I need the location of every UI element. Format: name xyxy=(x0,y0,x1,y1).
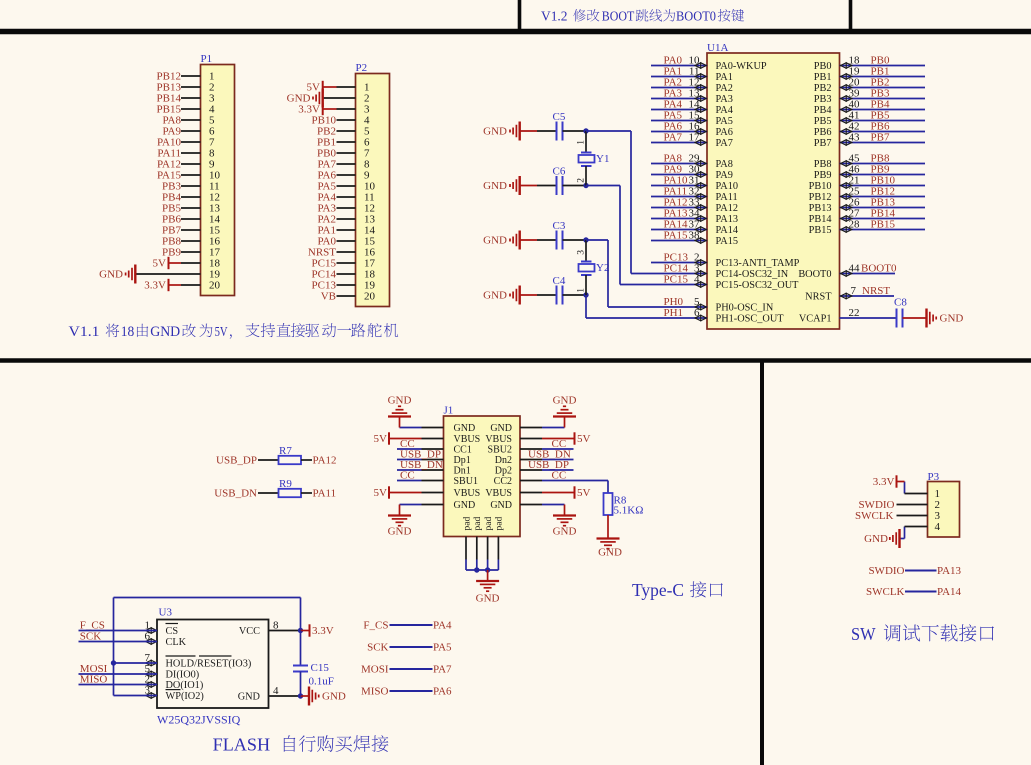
P2 pin 4 wire xyxy=(337,119,356,121)
wire F_CS xyxy=(79,630,158,632)
crystal Y2 pin 1 wire xyxy=(585,275,587,295)
svg-text:PA2: PA2 xyxy=(716,83,733,94)
svg-text:SWCLK: SWCLK xyxy=(855,510,894,522)
U3 CS overline xyxy=(166,623,179,625)
U1A pin 5 (PH0-OSC_IN) wire xyxy=(608,306,707,308)
title SW debug download port xyxy=(851,624,994,644)
ground symbol up (J1 top-left) xyxy=(388,415,411,417)
svg-text:VB: VB xyxy=(321,291,336,303)
wire C4 to node xyxy=(563,294,587,296)
wire GND to C6 xyxy=(521,185,538,187)
U3 pin 6 arrow xyxy=(146,639,157,644)
U1A pin 18 arrow xyxy=(841,63,852,68)
J1 left pin Dp1 stub xyxy=(422,459,444,461)
svg-text:1: 1 xyxy=(577,140,587,145)
U1A pin 33 (PA12) wire xyxy=(651,207,707,209)
svg-text:GND: GND xyxy=(476,593,500,605)
U1A pin 37 arrow xyxy=(695,227,706,232)
J1 left pin CC1 stub xyxy=(422,448,444,450)
J1 pad pin 2 xyxy=(476,537,478,560)
wire F_CS to PA4 xyxy=(390,624,433,626)
capacitor C6 xyxy=(556,176,558,195)
svg-text:PH1: PH1 xyxy=(664,307,684,319)
U3 pin 5 arrow xyxy=(146,671,157,676)
svg-text:PB2: PB2 xyxy=(814,83,832,94)
svg-text:28: 28 xyxy=(849,219,861,231)
U1A pin 25 (PB12) wire xyxy=(840,196,926,198)
P2 pin 2 wire xyxy=(324,97,356,99)
crystal Y1 pin 2 wire xyxy=(585,166,587,186)
power port 5V (J1 VBUS right bottom) xyxy=(542,492,575,494)
capacitor C5 xyxy=(556,122,558,141)
U1A pin 27 arrow xyxy=(841,216,852,221)
U1A pin 27 (PB14) wire xyxy=(840,218,926,220)
J1 left pin GND stub xyxy=(422,504,444,506)
wire SWDIO to PA13 xyxy=(905,570,937,572)
ground symbol (C8) xyxy=(925,309,927,328)
svg-text:GND: GND xyxy=(150,324,180,340)
U1A pin 26 arrow xyxy=(841,205,852,210)
U1A pin 40 arrow xyxy=(841,107,852,112)
U1A pin 29 (PA8) wire xyxy=(651,163,707,165)
ground symbol (P1.19) xyxy=(134,265,136,284)
junction (VCC node) xyxy=(298,628,303,633)
svg-text:BOOT: BOOT xyxy=(602,9,635,24)
wire VCC to C15 xyxy=(300,631,302,666)
svg-text:GND: GND xyxy=(483,126,507,138)
U3 pin 1 arrow xyxy=(146,628,157,633)
svg-text:GND: GND xyxy=(490,423,512,434)
U1A pin 31 (PA10) wire xyxy=(651,185,707,187)
svg-text:C4: C4 xyxy=(553,275,566,287)
J1 right pin GND stub xyxy=(520,427,542,429)
P1 pin 14 wire xyxy=(181,218,201,220)
U1A pin 30 (PA9) wire xyxy=(651,174,707,176)
U1A pin 12 arrow xyxy=(695,85,706,90)
svg-text:DI(IO0): DI(IO0) xyxy=(166,670,200,681)
svg-text:GND: GND xyxy=(483,235,507,247)
wire USB_DN to R9 xyxy=(258,492,279,494)
capacitor C4 xyxy=(556,286,558,305)
wire MOSI xyxy=(79,673,158,675)
power port 3.3V wire stub (P2.3) xyxy=(323,108,337,110)
svg-text:VBUS: VBUS xyxy=(485,488,512,499)
U1A pin 17 (PA7) wire xyxy=(651,142,707,144)
svg-text:pad: pad xyxy=(473,517,483,531)
svg-text:5V: 5V xyxy=(374,433,388,445)
svg-text:5V: 5V xyxy=(215,325,228,340)
svg-text:PB12: PB12 xyxy=(809,192,832,203)
wire MISO to PA6 xyxy=(390,690,433,692)
U1A pin 17 arrow xyxy=(695,140,706,145)
svg-text:43: 43 xyxy=(849,132,861,144)
crystal Y1 pin 1 wire xyxy=(585,131,587,153)
U1A pin 33 arrow xyxy=(695,205,706,210)
U1A pin 45 (PB8) wire xyxy=(840,163,926,165)
U1A pin 45 arrow xyxy=(841,161,852,166)
U3 pin 4 wire xyxy=(269,695,301,697)
svg-text:GND: GND xyxy=(388,395,412,407)
crystal Y2 pin 3 wire xyxy=(585,240,587,262)
power port 5V bar (P2.1) xyxy=(322,81,324,93)
U1A pin 2 (PC13-ANTI_TAMP) wire xyxy=(651,262,707,264)
power port 5V wire stub (P2.1) xyxy=(323,86,337,88)
P2 pin 8 wire xyxy=(337,163,356,165)
wire MISO xyxy=(79,684,158,686)
J1 left pin VBUS stub xyxy=(422,438,444,440)
J1 left pin GND stub xyxy=(422,427,444,429)
U1A pin 46 arrow xyxy=(841,172,852,177)
sheet horizontal separator (middle) xyxy=(0,358,1031,362)
crystal Y2 xyxy=(581,261,592,263)
power port 3.3V wire stub (P1.20) xyxy=(169,284,182,286)
U1A pin 43 arrow xyxy=(841,140,852,145)
capacitor C8 xyxy=(896,309,898,328)
svg-text:MISO: MISO xyxy=(361,686,389,698)
P2 pin 20 wire xyxy=(337,295,356,297)
title note V1.2 (BOOT jumper revision) xyxy=(541,9,744,24)
svg-text:PA3: PA3 xyxy=(716,94,733,105)
U1A pin 4 arrow xyxy=(695,282,706,287)
svg-text:J1: J1 xyxy=(444,405,454,417)
wire C3 node to PH0 xyxy=(586,239,608,241)
P2 pin 3 wire xyxy=(337,108,356,110)
svg-text:SBU2: SBU2 xyxy=(488,444,512,455)
U1A pin 16 (PA6) wire xyxy=(651,131,707,133)
J1 pad pin 1 xyxy=(465,537,467,560)
sheet partition vertical line (title block left) xyxy=(518,0,522,34)
P1 pin 18 wire xyxy=(181,262,201,264)
power port 5V (J1 VBUS right top) xyxy=(542,438,575,440)
svg-text:MOSI: MOSI xyxy=(361,664,389,676)
U1A pin 25 arrow xyxy=(841,194,852,199)
svg-text:6: 6 xyxy=(694,307,700,319)
wire SWCLK to PA14 xyxy=(905,591,937,593)
J1 right pin Dp2 stub xyxy=(520,469,542,471)
U1A pin 10 (PA0-WKUP) wire xyxy=(651,65,707,67)
U1A pin 34 (PA13) wire xyxy=(651,218,707,220)
svg-text:SBU1: SBU1 xyxy=(454,476,478,487)
J1 right pin Dn2 stub xyxy=(520,459,542,461)
wire to ground (U3) xyxy=(301,695,309,697)
svg-text:PA11: PA11 xyxy=(716,192,738,203)
svg-text:PB0: PB0 xyxy=(814,61,832,72)
wire CC1 xyxy=(397,448,422,450)
svg-text:PA5: PA5 xyxy=(716,116,733,127)
junction node (C4) xyxy=(583,292,588,297)
wire Dp2 xyxy=(542,469,574,471)
U1A pin 42 arrow xyxy=(841,129,852,134)
P1 pin 19 wire xyxy=(136,273,201,275)
svg-text:GND: GND xyxy=(454,500,476,511)
wire C8 to ground xyxy=(903,317,927,319)
ground symbol down (J1 pads) xyxy=(476,580,499,582)
svg-text:5.1KΩ: 5.1KΩ xyxy=(614,505,644,517)
U1A pin 20 arrow xyxy=(841,85,852,90)
U3 pin 8 wire xyxy=(269,630,301,632)
svg-text:WP(IO2): WP(IO2) xyxy=(166,691,204,702)
U1A pin 21 (PB10) wire xyxy=(840,185,926,187)
U1A pin 34 arrow xyxy=(695,216,706,221)
P2 pin 19 wire xyxy=(337,284,356,286)
svg-text:PB14: PB14 xyxy=(809,214,832,225)
junction (pad 3) xyxy=(485,567,490,572)
P3 pin 4 wire xyxy=(904,527,906,539)
J1 left pin VBUS stub xyxy=(422,492,444,494)
wire GND to C3 xyxy=(521,239,538,241)
P2 pin 5 wire xyxy=(337,130,356,132)
svg-text:PA13: PA13 xyxy=(937,565,962,577)
svg-text:GND: GND xyxy=(864,533,888,545)
wire USB_DP to R7 xyxy=(258,459,279,461)
wire left rail (HOLD/WP pullup) xyxy=(113,598,115,696)
svg-text:PA14: PA14 xyxy=(716,225,739,236)
svg-text:C3: C3 xyxy=(553,220,566,232)
U1A pin 44 arrow xyxy=(841,271,852,276)
wire C6 to node xyxy=(563,185,587,187)
U3 DO underline / WP overline xyxy=(166,689,181,691)
U1A pin 6 (PH1-OSC_OUT) wire xyxy=(586,317,707,319)
svg-text:20: 20 xyxy=(364,291,376,303)
P2 pin 11 wire xyxy=(337,196,356,198)
svg-text:C8: C8 xyxy=(894,297,907,309)
svg-text:3.3V: 3.3V xyxy=(144,280,166,292)
ground symbol (U3) xyxy=(308,687,310,706)
U1A pin 7 arrow xyxy=(841,293,852,298)
svg-text:20: 20 xyxy=(209,280,221,292)
ground symbol down (J1 bottom-right) xyxy=(553,514,576,516)
title Type-C port xyxy=(632,580,723,600)
U1A pin 15 arrow xyxy=(695,118,706,123)
svg-text:GND: GND xyxy=(490,500,512,511)
svg-text:GND: GND xyxy=(99,269,123,281)
P1 pin 15 wire xyxy=(181,229,201,231)
wire J1 GND top-right xyxy=(542,427,565,429)
svg-text:PA6: PA6 xyxy=(716,127,733,138)
svg-text:USB_DN: USB_DN xyxy=(214,488,257,500)
resistor R8 xyxy=(604,493,613,515)
svg-text:SCK: SCK xyxy=(80,630,101,642)
svg-text:SCK: SCK xyxy=(367,642,388,654)
P1 pin 20 wire xyxy=(181,284,201,286)
U1A pin 19 (PB1) wire xyxy=(840,76,926,78)
svg-text:5V: 5V xyxy=(577,433,591,445)
svg-text:PA7: PA7 xyxy=(433,664,452,676)
power port 5V bar (P1.18) xyxy=(168,257,170,269)
svg-text:VBUS: VBUS xyxy=(485,434,512,445)
svg-text:PB1: PB1 xyxy=(814,72,832,83)
svg-text:PA13: PA13 xyxy=(716,214,739,225)
P1 pin 4 wire xyxy=(181,108,201,110)
P3 pin 2 wire xyxy=(897,504,928,506)
svg-text:PA12: PA12 xyxy=(313,455,337,467)
svg-text:V1.1: V1.1 xyxy=(69,324,100,340)
svg-text:Type-C: Type-C xyxy=(632,580,684,600)
svg-text:F_CS: F_CS xyxy=(363,620,388,632)
U3 pin 2 arrow xyxy=(146,682,157,687)
ground symbol down (J1 bottom-left) xyxy=(388,514,411,516)
svg-text:GND: GND xyxy=(940,313,964,325)
P1 pin 13 wire xyxy=(181,207,201,209)
wire WP to rail xyxy=(114,695,158,697)
J1 pad pin 4 xyxy=(497,537,499,560)
svg-text:PA10: PA10 xyxy=(716,181,739,192)
wire R7 to PA12 xyxy=(301,459,312,461)
P2 pin 18 wire xyxy=(337,273,356,275)
U1A pin 41 (PB5) wire xyxy=(840,120,926,122)
svg-text:C15: C15 xyxy=(311,662,330,674)
wire SCK xyxy=(79,641,158,643)
P1 pin 10 wire xyxy=(181,174,201,176)
U1A pin 32 arrow xyxy=(695,194,706,199)
wire R8 to ground xyxy=(607,515,609,539)
P2 pin 7 wire xyxy=(337,152,356,154)
svg-text:GND: GND xyxy=(553,395,577,407)
svg-text:PB13: PB13 xyxy=(809,203,832,214)
wire top rail to VCC xyxy=(114,597,301,599)
svg-text:Dp1: Dp1 xyxy=(454,455,471,466)
svg-text:17: 17 xyxy=(689,132,701,144)
U1A pin 28 arrow xyxy=(841,227,852,232)
U1A pin 14 arrow xyxy=(695,107,706,112)
resistor R7 xyxy=(279,456,302,464)
svg-text:W25Q32JVSSIQ: W25Q32JVSSIQ xyxy=(157,713,241,727)
connector J1 body (USB Type-C) xyxy=(444,416,521,537)
svg-text:PA4: PA4 xyxy=(433,620,452,632)
svg-text:PA12: PA12 xyxy=(716,203,739,214)
svg-text:3.3V: 3.3V xyxy=(312,625,334,637)
P1 pin 7 wire xyxy=(181,141,201,143)
U1A pin 14 (PA4) wire xyxy=(651,109,707,111)
svg-text:PH0-OSC_IN: PH0-OSC_IN xyxy=(716,303,774,314)
ground symbol up (J1 top-right) xyxy=(553,415,576,417)
svg-text:GND: GND xyxy=(238,692,261,703)
svg-text:GND: GND xyxy=(598,547,622,559)
svg-text:PA15: PA15 xyxy=(716,236,739,247)
wire pad bus xyxy=(466,569,498,571)
svg-text:CC1: CC1 xyxy=(454,444,472,455)
svg-text:GND: GND xyxy=(483,180,507,192)
U1A pin 6 arrow xyxy=(695,315,706,320)
svg-text:USB_DP: USB_DP xyxy=(216,455,257,467)
svg-text:BOOT0: BOOT0 xyxy=(798,269,831,280)
U1A pin 13 (PA3) wire xyxy=(651,98,707,100)
connector P1 body xyxy=(201,65,235,296)
wire J1 GND bottom-left xyxy=(400,504,422,506)
wire J1 GND top-left xyxy=(400,427,422,429)
svg-text:HOLD/RESET(IO3): HOLD/RESET(IO3) xyxy=(166,659,252,670)
IC U3 body (FLASH) xyxy=(157,620,269,709)
power port 3.3V bar (P1.20) xyxy=(168,279,170,291)
U1A pin 11 (PA1) wire xyxy=(651,76,707,78)
wire CC2 to R8 xyxy=(542,480,608,482)
svg-text:PB15: PB15 xyxy=(809,225,832,236)
wire pads to ground xyxy=(487,570,489,581)
svg-text:FLASH: FLASH xyxy=(213,735,271,755)
wire R9 to PA11 xyxy=(301,492,312,494)
svg-text:Y1: Y1 xyxy=(596,153,609,165)
J1 pad pin 3 xyxy=(487,537,489,560)
U1A pin 29 arrow xyxy=(695,161,706,166)
U1A pin 11 arrow xyxy=(695,74,706,79)
svg-text:CS: CS xyxy=(166,626,179,637)
power port 5V wire stub (P1.18) xyxy=(169,262,182,264)
P1 pin 9 wire xyxy=(181,163,201,165)
svg-text:3.3V: 3.3V xyxy=(298,104,320,116)
P1 pin 12 wire xyxy=(181,196,201,198)
sheet vertical divider (bottom right section) xyxy=(760,361,764,765)
svg-text:PC13-ANTI_TAMP: PC13-ANTI_TAMP xyxy=(716,258,800,269)
P1 pin 1 wire xyxy=(181,75,201,77)
ground symbol (C5) xyxy=(519,122,521,141)
title FLASH purchase note xyxy=(213,735,389,755)
P2 pin 9 wire xyxy=(337,174,356,176)
crystal Y1 xyxy=(581,152,592,154)
svg-text:18: 18 xyxy=(121,324,135,340)
P2 pin 16 wire xyxy=(337,251,356,253)
U1A pin 39 arrow xyxy=(841,96,852,101)
svg-text:PC14-OSC32_IN: PC14-OSC32_IN xyxy=(716,269,789,280)
svg-text:SW: SW xyxy=(851,624,876,644)
U1A pin 13 arrow xyxy=(695,96,706,101)
U1A pin 30 arrow xyxy=(695,172,706,177)
J1 right pin VBUS stub xyxy=(520,492,542,494)
svg-text:NRST: NRST xyxy=(862,285,890,297)
svg-text:CC2: CC2 xyxy=(494,476,512,487)
J1 left pin Dn1 stub xyxy=(422,469,444,471)
P2 pin 14 wire xyxy=(337,229,356,231)
P1 pin 17 wire xyxy=(181,251,201,253)
P3 pin 1 wire xyxy=(904,482,906,494)
svg-text:PB5: PB5 xyxy=(814,116,832,127)
svg-text:PA5: PA5 xyxy=(433,642,452,654)
wire GND to C4 xyxy=(521,294,538,296)
capacitor C3 xyxy=(556,231,558,250)
P1 pin 5 wire xyxy=(181,119,201,121)
svg-text:22: 22 xyxy=(849,307,860,319)
capacitor C15 xyxy=(293,665,308,667)
U1A pin 38 arrow xyxy=(695,238,706,243)
wire Dn2 xyxy=(542,459,574,461)
svg-text:PB4: PB4 xyxy=(814,105,832,116)
svg-text:PA15: PA15 xyxy=(664,230,689,242)
wire SCK to PA5 xyxy=(390,646,433,648)
wire J1 GND bottom-right xyxy=(542,504,565,506)
svg-text:8: 8 xyxy=(273,619,279,631)
P1 pin 3 wire xyxy=(181,97,201,99)
svg-text:PB6: PB6 xyxy=(814,127,832,138)
J1 right pin SBU2 stub xyxy=(520,448,542,450)
svg-text:PB7: PB7 xyxy=(871,132,890,144)
svg-text:VBUS: VBUS xyxy=(454,488,481,499)
svg-text:5V: 5V xyxy=(153,258,167,270)
U1A pin 18 (PB0) wire xyxy=(840,65,926,67)
svg-text:PA7: PA7 xyxy=(716,138,733,149)
svg-text:PA0-WKUP: PA0-WKUP xyxy=(716,61,767,72)
wire Dn1 xyxy=(397,469,422,471)
svg-text:PA4: PA4 xyxy=(716,105,733,116)
U1A pin 26 (PB13) wire xyxy=(840,207,926,209)
svg-text:5V: 5V xyxy=(374,487,388,499)
U1A pin 31 arrow xyxy=(695,183,706,188)
U1A pin 3 (PC14-OSC32_IN) wire xyxy=(631,273,707,275)
svg-text:GND: GND xyxy=(454,423,476,434)
svg-text:2: 2 xyxy=(577,178,587,183)
U1A pin 12 (PA2) wire xyxy=(651,87,707,89)
svg-text:Dn1: Dn1 xyxy=(454,465,471,476)
svg-text:VCC: VCC xyxy=(239,626,260,637)
svg-text:GND: GND xyxy=(483,290,507,302)
